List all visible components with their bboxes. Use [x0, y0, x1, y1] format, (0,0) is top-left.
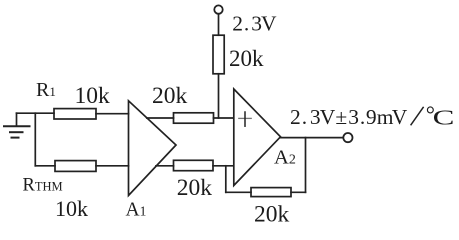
resistor 20k feedback: [251, 188, 291, 197]
resistor 20k top: [174, 113, 214, 123]
wire A1 top output: [147, 117, 174, 119]
svg-text:C: C: [433, 105, 455, 129]
svg-text:20k: 20k: [177, 175, 213, 201]
terminal 2.3V: [214, 5, 222, 13]
terminal output: [343, 133, 352, 142]
svg-text:2.3V±3.9mV: 2.3V±3.9mV: [290, 105, 408, 129]
wire feedback left vertical: [225, 166, 227, 193]
svg-text:20k: 20k: [152, 83, 188, 109]
wire ground to R1: [17, 112, 55, 114]
op-amp A2: [234, 89, 281, 186]
wire RTHM to A1: [96, 165, 129, 167]
wire terminal to 20k: [218, 14, 220, 35]
pin plus A2: [239, 112, 251, 126]
svg-text:2.3V: 2.3V: [232, 12, 277, 36]
wire 20k to A2 minus input: [213, 165, 234, 167]
node input junction: [34, 113, 36, 166]
wire feedback bottom right: [291, 191, 306, 193]
ground: [4, 113, 30, 137]
svg-text:RTHM: RTHM: [23, 176, 63, 196]
label output slash: [411, 107, 424, 126]
svg-text:20k: 20k: [229, 46, 264, 71]
resistor 20k bottom: [174, 160, 214, 170]
wire A2 output: [281, 137, 343, 139]
svg-text:10k: 10k: [55, 196, 88, 221]
wire 20k to node: [218, 74, 220, 118]
wire A1 bottom output: [156, 165, 174, 167]
resistor 20k vertical: [213, 35, 224, 74]
wire feedback right vertical: [305, 138, 307, 193]
svg-text:R1: R1: [36, 79, 56, 101]
svg-text:A2: A2: [274, 147, 296, 169]
resistor RTHM: [55, 161, 96, 172]
wire 20k to A2 plus input: [214, 117, 234, 119]
wire feedback bottom left: [226, 191, 251, 193]
svg-text:20k: 20k: [254, 201, 290, 227]
op-amp A1: [129, 101, 177, 196]
resistor R1: [54, 109, 96, 119]
svg-text:10k: 10k: [75, 83, 111, 109]
svg-text:A1: A1: [126, 199, 147, 220]
wire junction to RTHM: [35, 165, 55, 167]
wire R1 to A1: [96, 113, 129, 115]
